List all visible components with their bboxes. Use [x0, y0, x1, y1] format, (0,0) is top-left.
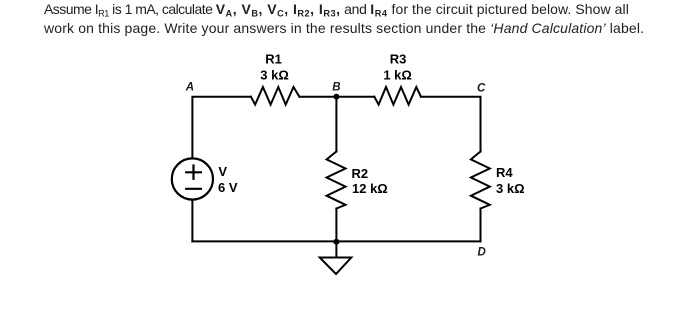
svg-text:3 kΩ: 3 kΩ: [496, 181, 525, 196]
resistor R2: [327, 152, 346, 209]
svg-text:D: D: [478, 247, 486, 259]
wire: R1 to node B: [299, 96, 336, 98]
wire: node B to R3: [336, 96, 374, 98]
wire: R4 to node D: [480, 209, 482, 242]
svg-text:C: C: [477, 83, 486, 95]
svg-text:R2: R2: [352, 166, 369, 181]
svg-text:12 kΩ: 12 kΩ: [352, 181, 388, 196]
wire: bottom rail: [192, 240, 480, 242]
minus sign: [186, 188, 201, 190]
resistor R3: [374, 87, 421, 105]
wire: R3 to node C and down right side: [421, 97, 481, 152]
problem statement text: [44, 0, 694, 39]
svg-text:R4: R4: [496, 165, 513, 180]
junction node B dot: [333, 94, 339, 100]
svg-text:A: A: [185, 82, 194, 94]
svg-text:6 V: 6 V: [218, 180, 238, 195]
voltage source V1 circle: [172, 158, 213, 199]
wire: source bottom to bottom rail: [191, 200, 193, 242]
wire: R2 to bottom rail: [335, 209, 337, 242]
svg-text:3 kΩ: 3 kΩ: [260, 68, 289, 83]
svg-text:R3: R3: [390, 52, 407, 67]
ground stub: [335, 242, 337, 258]
wire: node B down to R2: [335, 97, 337, 152]
svg-text:R1: R1: [265, 52, 282, 67]
resistor R4: [471, 152, 490, 209]
ground triangle: [320, 258, 352, 275]
wire top-left: node A to R1: [192, 97, 251, 159]
svg-text:B: B: [332, 82, 340, 94]
svg-text:1 kΩ: 1 kΩ: [383, 68, 412, 83]
junction bottom dot: [333, 239, 339, 245]
svg-text:V: V: [218, 164, 227, 179]
resistor R1: [251, 87, 300, 105]
plus sign: [186, 171, 201, 173]
